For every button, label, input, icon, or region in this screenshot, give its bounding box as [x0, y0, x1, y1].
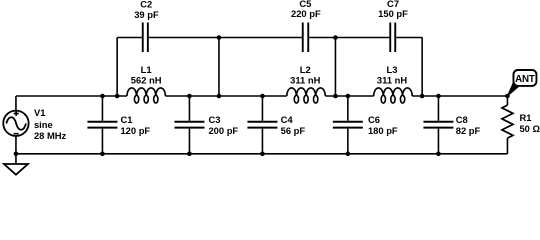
svg-text:200 pF: 200 pF	[208, 125, 238, 136]
label L3 value	[377, 64, 407, 86]
svg-text:120 pF: 120 pF	[120, 125, 150, 136]
wire top rail segment right	[396, 37, 422, 39]
label C8 value	[456, 114, 481, 136]
inductor L2	[287, 88, 326, 103]
wire top rail segment middle-left	[149, 37, 302, 39]
svg-text:220 pF: 220 pF	[291, 8, 321, 19]
svg-text:50 Ω: 50 Ω	[519, 123, 540, 134]
label L2 value	[290, 64, 320, 86]
svg-text:C4: C4	[281, 114, 294, 125]
svg-text:39 pF: 39 pF	[134, 9, 159, 20]
node C8 on main rail	[436, 94, 441, 99]
capacitor C8	[423, 96, 453, 154]
resistor R1	[502, 96, 513, 154]
svg-text:C3: C3	[208, 114, 220, 125]
node C3 on main rail	[187, 94, 192, 99]
node A on main rail	[115, 94, 120, 99]
svg-text:150 pF: 150 pF	[378, 8, 408, 19]
node C6 on main rail	[346, 94, 351, 99]
wire vertical branch at node B	[218, 38, 220, 97]
label C4 value	[281, 114, 306, 136]
svg-text:V1: V1	[34, 107, 45, 118]
node C3 bottom	[187, 152, 192, 157]
label C5 value	[291, 0, 321, 19]
svg-text:C8: C8	[456, 114, 468, 125]
svg-text:sine: sine	[34, 119, 53, 130]
node C1 bottom	[100, 152, 105, 157]
label C1 value	[120, 114, 150, 136]
label L1 value	[131, 64, 162, 86]
node C5-C7 junction on top wire	[333, 35, 338, 40]
ground	[4, 154, 28, 175]
node B on main rail	[217, 94, 222, 99]
wire main rail L2 to L3	[325, 95, 373, 97]
svg-text:C6: C6	[368, 114, 380, 125]
wire top rail segment left (C2 branch)	[117, 37, 142, 39]
capacitor C2	[143, 23, 148, 53]
voltage source V1	[3, 111, 28, 136]
capacitor C4	[247, 96, 277, 154]
svg-text:R1: R1	[519, 112, 531, 123]
svg-text:562 nH: 562 nH	[131, 75, 162, 86]
node C on main rail	[333, 94, 338, 99]
svg-text:82 pF: 82 pF	[456, 125, 481, 136]
wire vertical branch at node C	[334, 38, 336, 97]
svg-text:L1: L1	[141, 64, 152, 75]
label C7 value	[378, 0, 408, 19]
svg-text:ANT: ANT	[515, 74, 535, 85]
inductor L1	[127, 88, 166, 103]
svg-text:311 nH: 311 nH	[377, 75, 407, 86]
label C2 value	[134, 0, 159, 20]
wire vertical branch at node A	[116, 38, 118, 97]
svg-text:180 pF: 180 pF	[368, 125, 398, 136]
svg-text:28 MHz: 28 MHz	[34, 130, 67, 141]
svg-text:56 pF: 56 pF	[281, 125, 306, 136]
node C8 bottom	[436, 152, 441, 157]
node C6 bottom	[346, 152, 351, 157]
capacitor C6	[333, 96, 363, 154]
net label ANT	[507, 70, 536, 96]
node C4 bottom	[260, 152, 265, 157]
capacitor C1	[87, 96, 117, 154]
wire top rail segment middle-right	[309, 37, 389, 39]
wire bottom ground rail	[16, 153, 508, 155]
wire vertical branch at node D	[421, 38, 423, 97]
node A junction (top wire / C2 left)	[217, 35, 222, 40]
label C6 value	[368, 114, 398, 136]
svg-text:L2: L2	[300, 64, 311, 75]
wire main rail L3 to R1	[412, 95, 507, 97]
wire main rail V1 to L1	[16, 95, 127, 97]
wire V1 bottom lead	[15, 136, 17, 154]
capacitor C5	[303, 23, 309, 53]
wire main rail L1 to L2	[165, 95, 286, 97]
node ground junction	[14, 152, 19, 157]
label V1 value	[34, 107, 67, 141]
svg-text:C1: C1	[120, 114, 132, 125]
label R1 value	[519, 112, 540, 134]
capacitor C7	[390, 23, 395, 53]
node C1 on main rail	[100, 94, 105, 99]
svg-text:L3: L3	[387, 64, 398, 75]
wire V1 top lead	[15, 96, 17, 111]
node C4 on main rail	[260, 94, 265, 99]
svg-text:311 nH: 311 nH	[290, 75, 320, 86]
node D on main rail	[420, 94, 425, 99]
capacitor C3	[174, 96, 204, 154]
inductor L3	[374, 88, 413, 103]
label C3 value	[208, 114, 238, 136]
node ANT junction	[505, 94, 510, 99]
